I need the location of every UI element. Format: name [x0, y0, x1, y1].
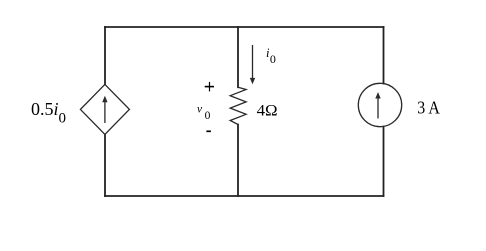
svg-text:0: 0 [205, 110, 211, 122]
svg-text:4Ω: 4Ω [257, 103, 278, 120]
svg-text:0: 0 [270, 52, 276, 66]
svg-text:0.5i0: 0.5i0 [31, 99, 66, 127]
svg-text:v: v [197, 104, 203, 116]
svg-text:3 A: 3 A [417, 98, 440, 118]
